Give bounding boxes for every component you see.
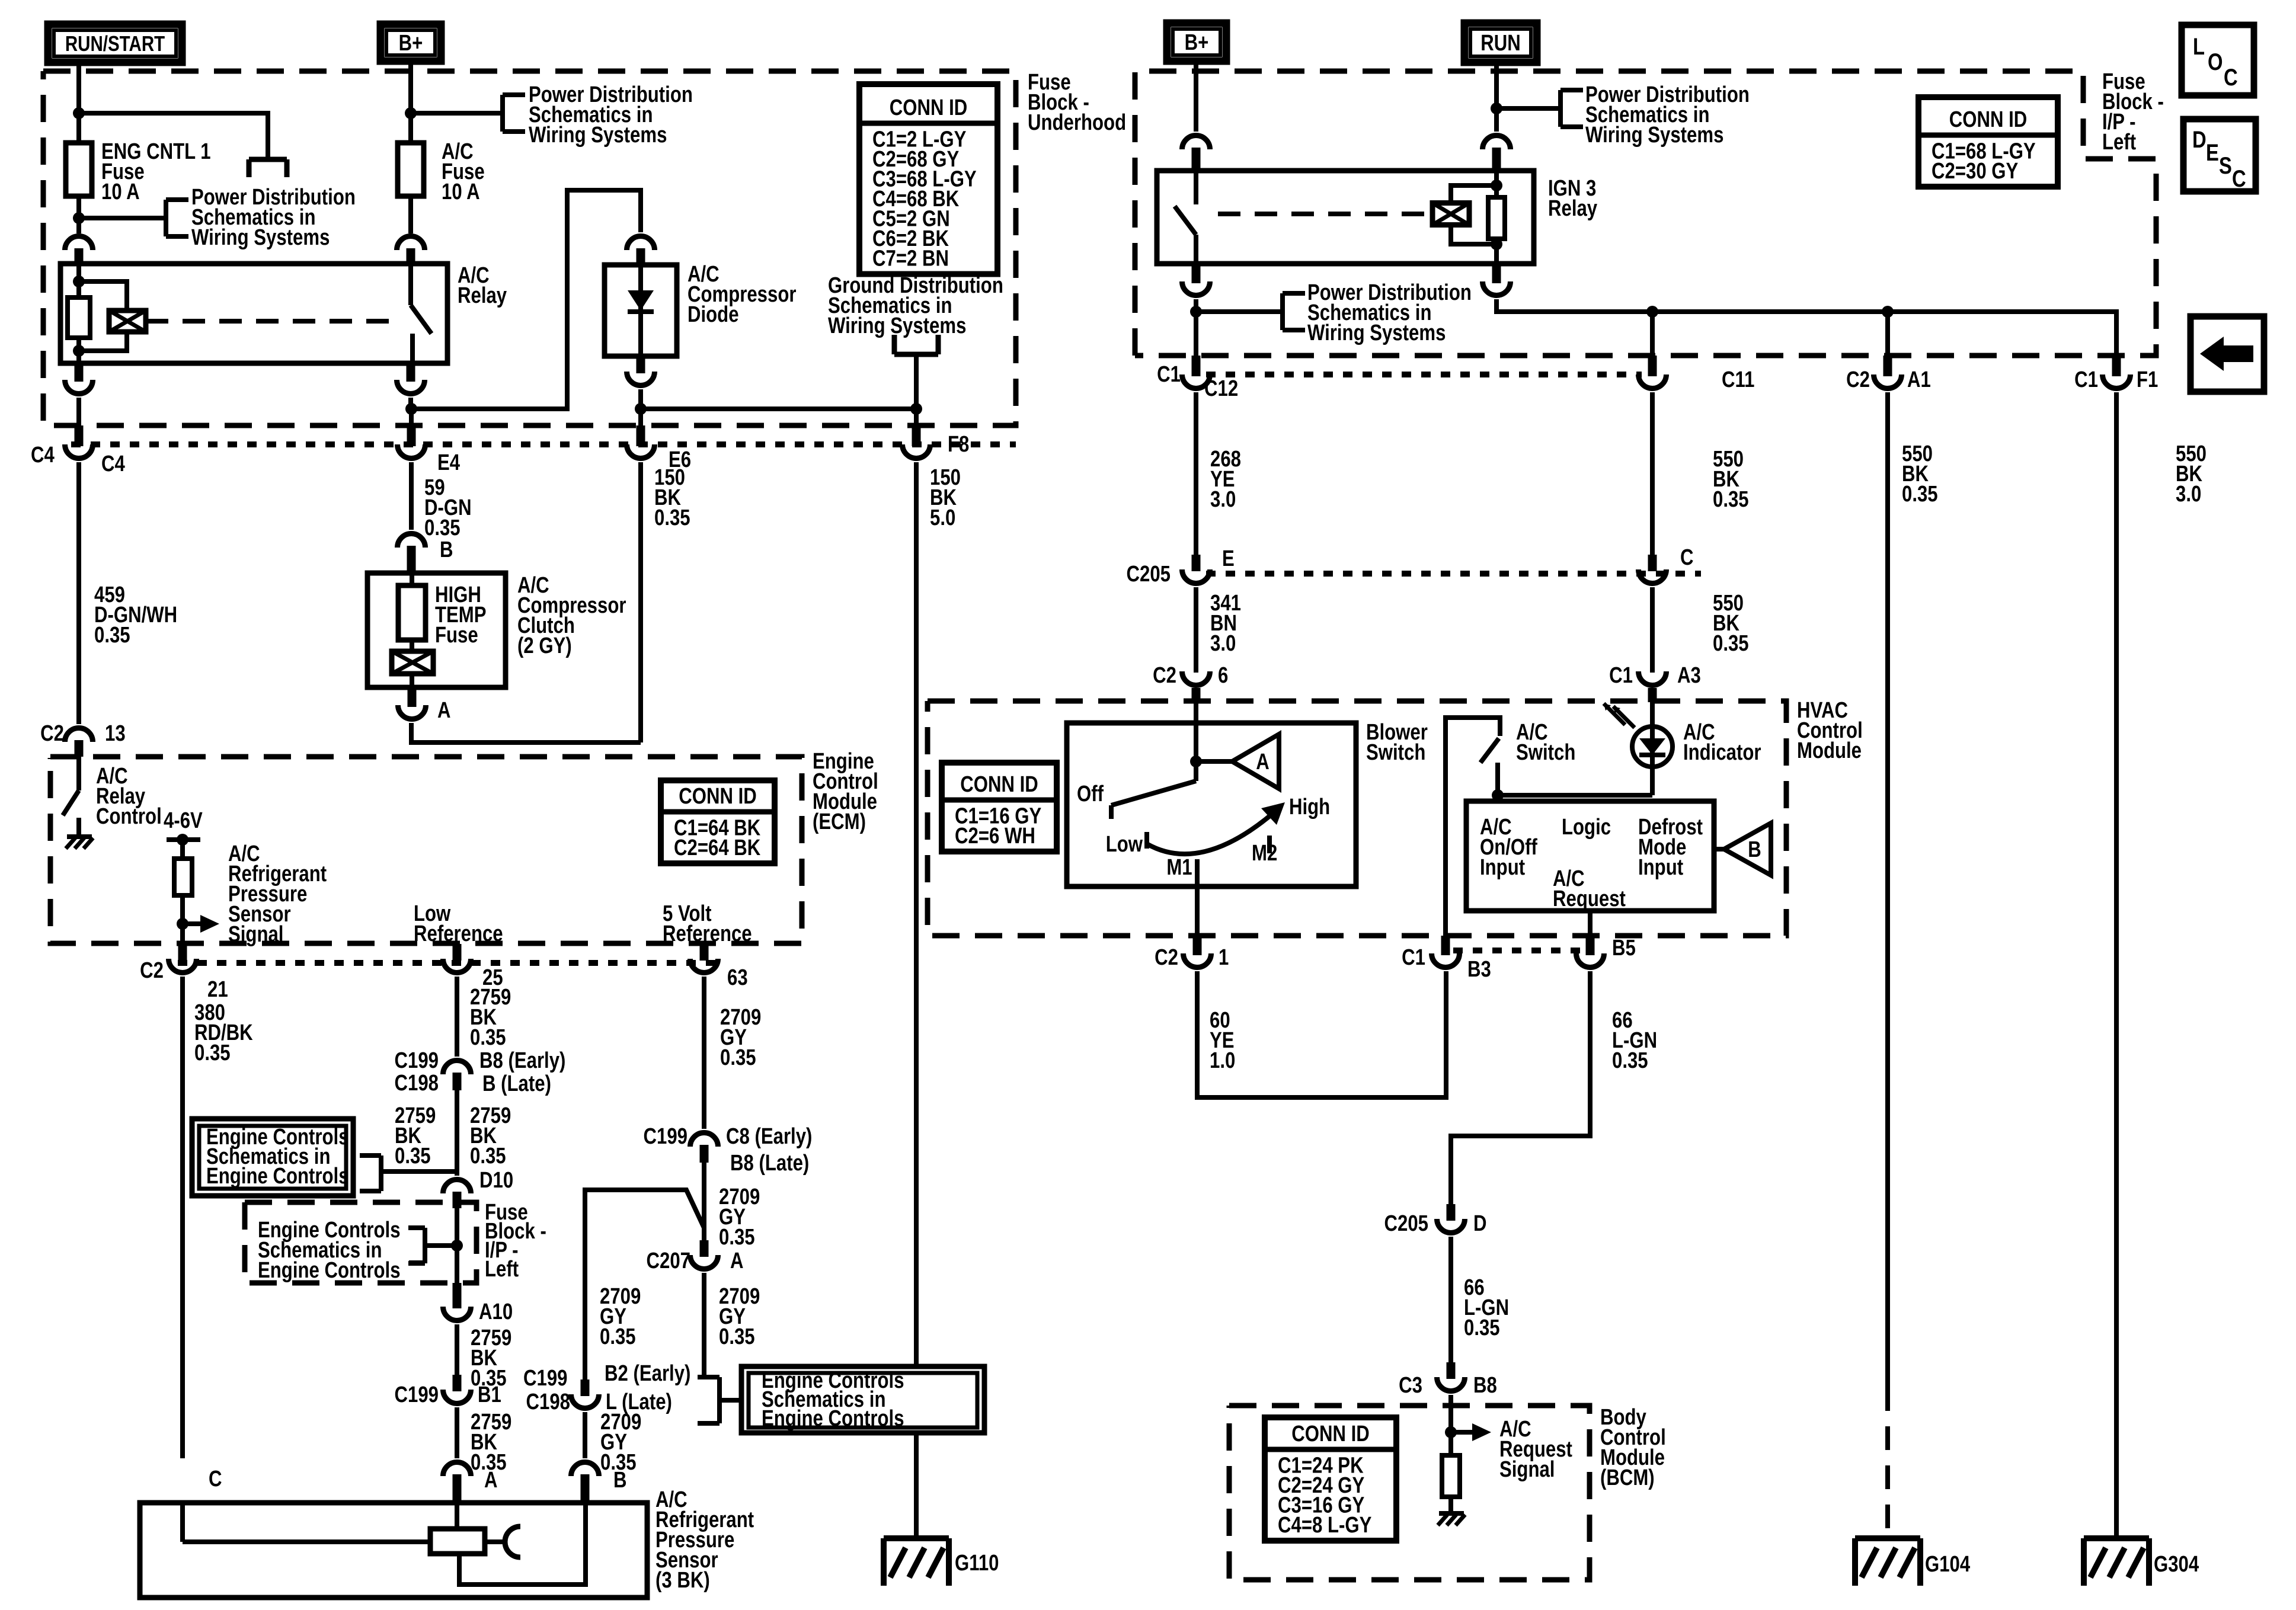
svg-text:Low: Low xyxy=(1106,832,1143,857)
svg-text:Switch: Switch xyxy=(1516,740,1575,765)
svg-text:Engine Controls: Engine Controls xyxy=(762,1406,904,1431)
svg-text:Request: Request xyxy=(1553,886,1626,911)
svg-text:M1: M1 xyxy=(1166,855,1192,880)
svg-text:Reference: Reference xyxy=(414,921,503,946)
svg-text:5.0: 5.0 xyxy=(930,505,955,530)
svg-text:Diode: Diode xyxy=(687,302,739,327)
svg-text:0.35: 0.35 xyxy=(1713,487,1749,512)
svg-text:Relay: Relay xyxy=(458,283,507,308)
svg-text:0.35: 0.35 xyxy=(1902,482,1938,507)
svg-text:B: B xyxy=(1748,837,1761,862)
svg-text:C205: C205 xyxy=(1127,562,1171,587)
svg-text:1.0: 1.0 xyxy=(1210,1048,1235,1073)
svg-text:3.0: 3.0 xyxy=(1210,631,1236,656)
svg-text:A10: A10 xyxy=(479,1299,513,1324)
svg-text:(BCM): (BCM) xyxy=(1600,1465,1655,1490)
svg-text:B: B xyxy=(613,1468,627,1493)
svg-text:Wiring Systems: Wiring Systems xyxy=(529,123,667,148)
svg-text:C2=64 BK: C2=64 BK xyxy=(674,836,760,860)
svg-text:B+: B+ xyxy=(399,31,423,56)
svg-text:CONN ID: CONN ID xyxy=(1291,1422,1370,1446)
svg-text:G110: G110 xyxy=(955,1551,999,1576)
svg-text:0.35: 0.35 xyxy=(194,1041,231,1065)
svg-text:13: 13 xyxy=(105,721,126,746)
svg-text:Reference: Reference xyxy=(663,921,752,946)
svg-text:Wiring Systems: Wiring Systems xyxy=(191,225,330,250)
svg-text:Wiring Systems: Wiring Systems xyxy=(1307,321,1446,345)
svg-text:Left: Left xyxy=(485,1257,519,1282)
svg-text:C2: C2 xyxy=(1153,663,1176,688)
svg-text:Wiring Systems: Wiring Systems xyxy=(828,313,966,338)
svg-text:A3: A3 xyxy=(1677,663,1701,688)
svg-text:CONN ID: CONN ID xyxy=(679,784,757,809)
svg-text:CONN ID: CONN ID xyxy=(960,772,1038,797)
svg-text:63: 63 xyxy=(727,965,748,990)
svg-text:G304: G304 xyxy=(2154,1552,2199,1577)
svg-text:4-6V: 4-6V xyxy=(164,808,203,833)
svg-text:0.35: 0.35 xyxy=(424,516,461,540)
svg-text:A: A xyxy=(437,698,451,723)
svg-text:Signal: Signal xyxy=(228,922,283,947)
svg-text:C199: C199 xyxy=(644,1124,687,1149)
svg-text:0.35: 0.35 xyxy=(654,505,690,530)
svg-text:F1: F1 xyxy=(2137,367,2158,392)
svg-text:Left: Left xyxy=(2102,130,2136,155)
svg-text:B8: B8 xyxy=(1473,1373,1497,1398)
svg-text:C4: C4 xyxy=(31,443,55,468)
svg-text:Engine Controls: Engine Controls xyxy=(206,1164,349,1189)
svg-text:Relay: Relay xyxy=(1548,196,1598,221)
svg-text:6: 6 xyxy=(1218,663,1228,688)
svg-text:Input: Input xyxy=(1638,855,1683,880)
svg-text:High: High xyxy=(1289,795,1330,820)
svg-text:A: A xyxy=(1256,750,1269,774)
svg-text:3.0: 3.0 xyxy=(1210,487,1236,512)
svg-text:A: A xyxy=(730,1249,744,1273)
svg-text:1: 1 xyxy=(1219,945,1229,970)
svg-text:CONN ID: CONN ID xyxy=(1949,107,2028,132)
svg-text:C7=2 BN: C7=2 BN xyxy=(872,247,949,271)
svg-text:RUN: RUN xyxy=(1480,31,1520,56)
svg-text:(3 BK): (3 BK) xyxy=(655,1568,710,1593)
svg-text:0.35: 0.35 xyxy=(470,1144,506,1169)
svg-text:B (Late): B (Late) xyxy=(482,1071,551,1096)
svg-text:C12: C12 xyxy=(1204,376,1238,401)
svg-text:B8 (Early): B8 (Early) xyxy=(479,1048,565,1073)
svg-text:Underhood: Underhood xyxy=(1028,110,1126,135)
svg-text:Control: Control xyxy=(96,804,162,829)
svg-text:C1: C1 xyxy=(1157,362,1181,387)
svg-text:0.35: 0.35 xyxy=(1713,631,1749,656)
svg-text:B8 (Late): B8 (Late) xyxy=(730,1151,809,1176)
svg-text:C11: C11 xyxy=(1722,367,1754,392)
svg-text:Switch: Switch xyxy=(1366,740,1425,765)
svg-text:(2 GY): (2 GY) xyxy=(517,633,572,658)
svg-text:C1: C1 xyxy=(1609,663,1633,688)
svg-text:Module: Module xyxy=(1797,738,1862,763)
svg-text:C2: C2 xyxy=(140,958,164,983)
svg-text:0.35: 0.35 xyxy=(94,623,130,648)
svg-text:B5: B5 xyxy=(1612,936,1636,961)
svg-text:Engine Controls: Engine Controls xyxy=(258,1258,401,1283)
svg-text:Logic: Logic xyxy=(1562,815,1611,840)
svg-text:C2=6 WH: C2=6 WH xyxy=(955,824,1035,849)
svg-text:B+: B+ xyxy=(1185,30,1209,55)
svg-text:21: 21 xyxy=(207,977,228,1002)
svg-text:3.0: 3.0 xyxy=(2176,482,2201,507)
svg-text:(ECM): (ECM) xyxy=(813,809,866,834)
svg-text:0.35: 0.35 xyxy=(720,1045,756,1070)
svg-text:A1: A1 xyxy=(1907,367,1931,392)
svg-text:E4: E4 xyxy=(437,450,461,475)
svg-text:F8: F8 xyxy=(948,432,969,457)
svg-text:B3: B3 xyxy=(1467,957,1491,982)
svg-text:C: C xyxy=(209,1467,222,1491)
svg-text:D: D xyxy=(1473,1211,1487,1236)
svg-text:Indicator: Indicator xyxy=(1683,740,1761,765)
svg-text:B2 (Early): B2 (Early) xyxy=(605,1361,690,1386)
svg-text:S: S xyxy=(2219,152,2232,179)
svg-text:C3: C3 xyxy=(1399,1373,1422,1398)
svg-text:C: C xyxy=(1680,545,1694,570)
svg-text:C199: C199 xyxy=(395,1382,439,1407)
svg-text:C4: C4 xyxy=(101,452,125,476)
svg-text:C199: C199 xyxy=(523,1366,567,1391)
svg-text:0.35: 0.35 xyxy=(600,1324,636,1349)
svg-text:B: B xyxy=(440,537,453,562)
svg-text:C: C xyxy=(2232,165,2246,192)
svg-text:C207: C207 xyxy=(647,1249,690,1273)
svg-text:Off: Off xyxy=(1077,782,1104,806)
svg-text:D10: D10 xyxy=(479,1168,513,1193)
svg-text:CONN ID: CONN ID xyxy=(890,95,968,120)
svg-text:C2=30 GY: C2=30 GY xyxy=(1932,159,2018,184)
svg-text:C8 (Early): C8 (Early) xyxy=(726,1124,812,1149)
svg-text:0.35: 0.35 xyxy=(1464,1315,1500,1340)
svg-text:0.35: 0.35 xyxy=(470,1025,506,1050)
svg-text:C198: C198 xyxy=(526,1390,570,1414)
svg-text:C: C xyxy=(2224,64,2238,91)
svg-text:C199: C199 xyxy=(395,1048,439,1073)
svg-text:0.35: 0.35 xyxy=(719,1225,755,1250)
svg-text:Fuse: Fuse xyxy=(435,623,478,648)
svg-text:0.35: 0.35 xyxy=(1612,1048,1648,1073)
svg-text:O: O xyxy=(2208,49,2223,75)
svg-text:0.35: 0.35 xyxy=(719,1324,755,1349)
svg-text:Signal: Signal xyxy=(1499,1457,1555,1482)
svg-text:B1: B1 xyxy=(478,1382,501,1407)
svg-text:C2: C2 xyxy=(1155,945,1178,970)
svg-text:D: D xyxy=(2192,126,2207,153)
svg-text:C1: C1 xyxy=(1402,945,1425,970)
svg-text:10 A: 10 A xyxy=(442,180,480,204)
svg-text:C2: C2 xyxy=(40,721,64,746)
svg-text:RUN/START: RUN/START xyxy=(65,31,165,55)
svg-text:L: L xyxy=(2193,33,2205,60)
svg-text:10 A: 10 A xyxy=(101,180,140,204)
svg-text:Input: Input xyxy=(1480,855,1525,880)
svg-text:C2: C2 xyxy=(1846,367,1870,392)
svg-text:E: E xyxy=(1222,546,1235,571)
svg-text:C198: C198 xyxy=(395,1071,439,1096)
svg-text:M2: M2 xyxy=(1252,841,1277,866)
svg-text:E: E xyxy=(2206,139,2219,166)
svg-text:Wiring Systems: Wiring Systems xyxy=(1585,123,1723,148)
svg-text:G104: G104 xyxy=(1925,1552,1971,1577)
svg-text:C4=8 L-GY: C4=8 L-GY xyxy=(1278,1513,1371,1538)
svg-text:C205: C205 xyxy=(1384,1211,1428,1236)
svg-text:A: A xyxy=(484,1468,498,1493)
svg-text:C1: C1 xyxy=(2074,367,2098,392)
svg-text:0.35: 0.35 xyxy=(395,1144,431,1169)
